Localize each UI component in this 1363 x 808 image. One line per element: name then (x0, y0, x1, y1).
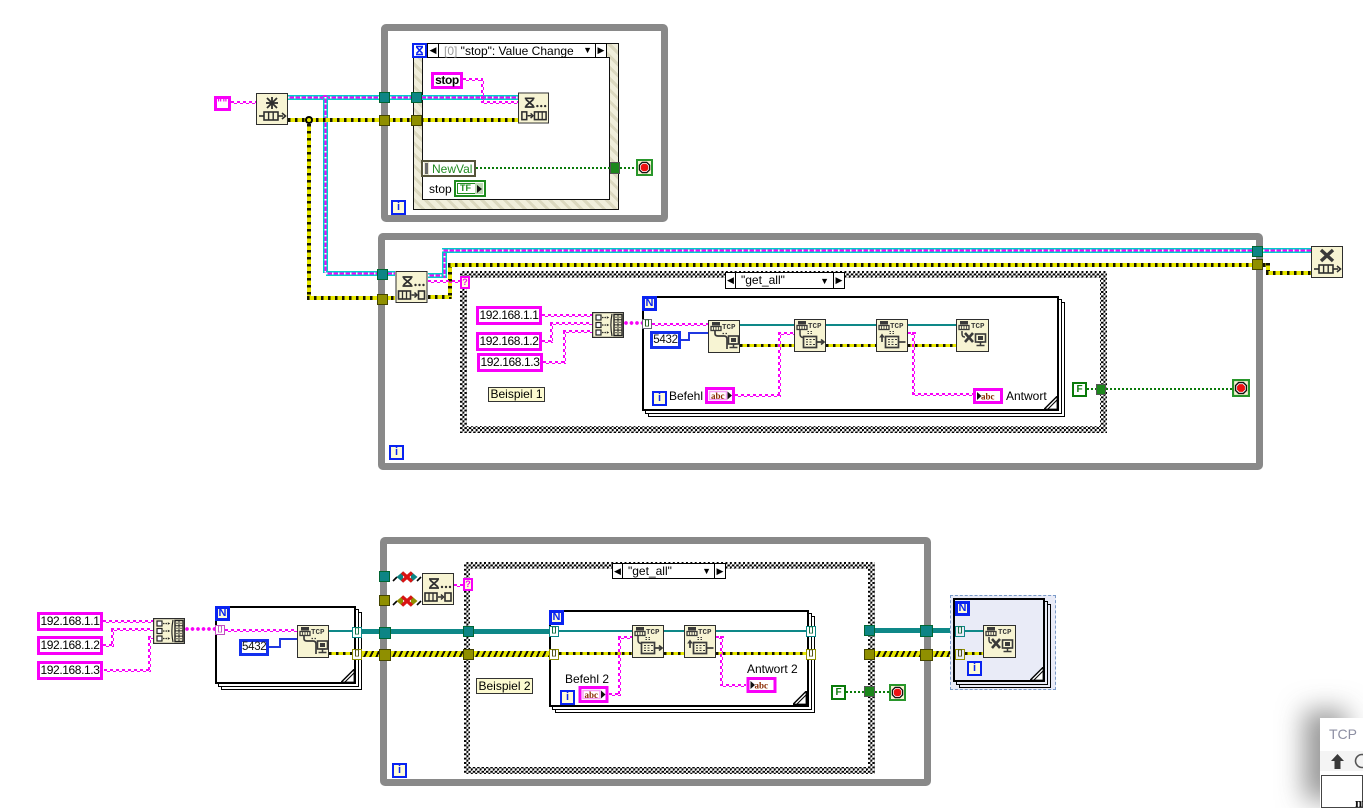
build array 2 (153, 618, 185, 644)
wire: error thin in for2 b (664, 652, 684, 655)
wire: conn id teal 2 (826, 324, 876, 326)
wire: F2 to tunnel (846, 691, 865, 693)
for loop 1 N terminal (642, 296, 657, 311)
while loop 1 (381, 24, 668, 222)
index tunnel forB left olive (955, 649, 965, 660)
event structure border (413, 43, 619, 210)
wire: error out forA (329, 652, 352, 655)
Befehl 2 abc control (578, 686, 609, 703)
case 1 header (725, 272, 845, 289)
for1 i terminal (652, 391, 667, 406)
tunnel teal case2 right (864, 625, 875, 636)
wire: queue refnum horizontal to enqueue (288, 95, 518, 100)
dequeue icon loop3 (422, 573, 454, 605)
dequeue icon loop2 (395, 271, 428, 303)
tunnel teal on event (411, 92, 422, 103)
tunnel olive loop3 topleft (379, 595, 390, 606)
Antwort 2 abc indicator (746, 677, 777, 693)
wire: address wavy to tcp open (652, 323, 708, 326)
loop3 i terminal (392, 763, 407, 778)
tunnel olive on event (411, 115, 422, 126)
wire: error to release queue icon (1263, 263, 1270, 267)
palette TCP title (1329, 726, 1357, 742)
Befehl abc control (705, 387, 735, 404)
Antwort label (1006, 389, 1047, 403)
wire: port blue (681, 339, 690, 341)
tcp close 2 (983, 625, 1016, 658)
case structure 2 border (464, 562, 875, 774)
wire: green dotted tunnel to stop button (620, 167, 637, 169)
tcp read 1 (876, 319, 908, 352)
tunnel teal loop3 topleft (379, 571, 390, 582)
stop label (429, 182, 452, 196)
tunnel teal loop2 right (1252, 246, 1263, 257)
tunnel green case2 (864, 686, 875, 697)
tunnel olive loop3 right (920, 649, 933, 661)
palette lower box (1321, 775, 1363, 808)
wire: Befehl to tcp write (735, 394, 781, 397)
junction dot queue (322, 95, 328, 101)
release queue icon (1311, 246, 1343, 278)
index tunnel for2 left olive (549, 649, 559, 660)
index tunnel for2 right teal (806, 626, 816, 637)
Beispiel 2 label (476, 678, 533, 694)
wire: teal thin in for2 c (716, 630, 807, 632)
enqueue icon (518, 92, 549, 124)
tunnel teal loop3 right (920, 625, 933, 637)
F constant 1 (1072, 382, 1087, 397)
wire: green dotted NewVal to tunnel (476, 167, 611, 169)
wire: Befehl2 to tcp write2 (609, 693, 621, 696)
wire: ip1 to build array (542, 314, 592, 317)
NewVal event data node (421, 160, 476, 177)
tunnel olive loop2 right (1252, 259, 1263, 270)
for loop B dogear (1030, 667, 1044, 681)
wire: tunnel to stop btn 3 (875, 691, 889, 693)
Antwort abc indicator (973, 388, 1003, 404)
tcp write 1 (794, 319, 826, 352)
wire: queue refnum vertical branch (323, 97, 328, 273)
event timeout terminal (412, 43, 427, 58)
while1 i terminal (391, 200, 406, 215)
forB i terminal (967, 661, 982, 676)
tcp write 2 (632, 625, 664, 658)
palette up arrow (1330, 753, 1345, 770)
for loop 2 stacked frames (555, 616, 815, 713)
for loop 2 (549, 610, 809, 707)
string constant "" (214, 96, 231, 111)
for loop 1 stacked frames (648, 302, 1065, 417)
junction dot error (305, 116, 313, 124)
wire: tunnel to stop btn 2 (1106, 388, 1232, 390)
for loop A (215, 606, 356, 684)
palette m glyph (1355, 795, 1363, 808)
case structure 2 inner (470, 569, 868, 767)
Beispiel 1 label (488, 387, 545, 402)
wire: F to tunnel (1087, 388, 1097, 390)
wire: error thin in for2 a (559, 652, 632, 655)
wire: error 1b (826, 344, 876, 347)
wire: queue out of dequeue to release (428, 273, 447, 278)
numeric constant 5432 (650, 331, 681, 349)
wire: tcp read data out to Antwort (908, 332, 916, 335)
for loop A dogear (341, 669, 355, 683)
tunnel green case1 (1096, 384, 1106, 395)
svg symbol defs (0, 0, 1, 1)
F constant 2 (831, 685, 846, 700)
wire: error out of obtain queue (288, 118, 518, 122)
event header box (427, 43, 607, 58)
for loop B selection highlight (950, 595, 1056, 690)
wire: error 1a (740, 344, 794, 347)
wire: ip3b to build array (104, 669, 151, 672)
wire: error 1c (908, 344, 956, 347)
wire: dequeue element to case selector (428, 280, 461, 283)
wire: teal inside case2 to for2 (474, 629, 550, 634)
tunnel olive case2 left (463, 649, 474, 660)
case structure 1 inner (467, 278, 1100, 426)
tcp open 1 (708, 320, 740, 353)
wire: ip1b to build array (103, 620, 153, 623)
stop TF terminal (454, 180, 486, 197)
for loop A stacked frames (221, 612, 362, 690)
tunnel teal on while1 (379, 92, 390, 103)
index tunnel for2 right olive (806, 649, 816, 660)
wire: teal band case2 to loop3 (875, 628, 921, 633)
string constant 192.168.1.3 (477, 353, 543, 372)
wire: teal out forA (329, 630, 352, 632)
wire: teal thin in for2 a (559, 630, 632, 632)
palette toolbar (1320, 751, 1363, 771)
tunnel teal loop2 left (377, 269, 388, 280)
wire: teal array to loop3 (362, 629, 382, 634)
wire: teal thin in forB (965, 630, 983, 632)
case 2 header (612, 563, 726, 579)
index tunnel forA right teal (352, 627, 362, 638)
wire: conn id teal 3 (908, 324, 956, 326)
wire: error band case2 to loop3 (875, 651, 921, 657)
wire: error inside case2 to for2 (474, 651, 550, 657)
wire: ip2b to build array (103, 644, 114, 647)
wire: string const to obtain queue (231, 101, 256, 104)
case selector ? tunnel (460, 276, 470, 289)
Befehl 2 label (565, 672, 609, 686)
wire: error thin in forB (965, 652, 983, 655)
wire: error thin in for2 c (716, 652, 807, 655)
for loop 2 N terminal (549, 610, 564, 625)
wire: error band to case2 (391, 651, 464, 657)
wire: error out of dequeue (428, 295, 452, 299)
while loop 2 (378, 233, 1263, 470)
case2 selector ? tunnel (463, 578, 473, 591)
indexing tunnel on for1 (642, 319, 652, 329)
numeric constant 5432 b (239, 639, 269, 656)
for loop B (953, 598, 1045, 682)
broken wire teal (392, 570, 422, 584)
Antwort 2 label (747, 662, 798, 676)
wire: ip2 to build array (542, 340, 553, 343)
broken wire olive (392, 594, 422, 608)
tunnel olive on while1 (379, 115, 390, 126)
palette partial circle (1354, 753, 1363, 769)
for loop B stacked frames (959, 604, 1051, 688)
wire: teal band to case2 (391, 629, 464, 634)
wire: tcp read2 out to Antwort2 (716, 636, 724, 639)
wire: conn id teal 1 (740, 324, 794, 326)
wire: array to for loop tunnel (624, 321, 644, 325)
wire: queue into loop2 (326, 271, 395, 276)
wire: array to forA tunnel (185, 627, 216, 631)
for loop 1 dogear (1044, 396, 1058, 410)
wire: error band loop3 to forB (933, 651, 956, 657)
stop local variable (431, 72, 463, 89)
wire: ip3 to build array (543, 361, 566, 364)
stop button terminal (636, 159, 653, 176)
tcp read 2 (684, 625, 716, 658)
tcp close 1 (956, 319, 989, 352)
obtain queue icon (256, 93, 288, 125)
for loop B N terminal (955, 601, 970, 616)
string constant 192.168.1.2 (476, 332, 542, 351)
event structure inner (422, 57, 610, 200)
wire: dequeue2 element to case2 selector (454, 584, 464, 587)
build array 1 (592, 312, 624, 338)
case structure 1 border (460, 271, 1107, 433)
index tunnel forB left teal (955, 626, 965, 637)
tunnel teal loop3 left (379, 627, 391, 639)
for loop 1 (642, 296, 1059, 411)
wire: address wavy to tcp open 2 (225, 629, 297, 632)
wire: teal thin in for2 b (664, 630, 684, 632)
tunnel olive case2 right (864, 649, 875, 660)
string constant 192.168.1.2 b (37, 636, 103, 655)
tunnel olive loop2 left (377, 294, 388, 305)
index tunnel for2 left teal (549, 626, 559, 637)
wire: error vertical branch (307, 124, 311, 298)
string constant 192.168.1.1 (476, 306, 542, 325)
string constant 192.168.1.3 b (37, 661, 103, 680)
for loop A N terminal (215, 606, 230, 621)
while2 i terminal (389, 445, 404, 460)
for loop 2 dogear (793, 691, 807, 705)
tunnel olive loop3 left (379, 649, 391, 661)
wire: queue to release queue icon (1263, 248, 1311, 253)
stop button 2 (1232, 379, 1250, 397)
tcp open 2 (297, 625, 329, 658)
indexing tunnel on forA (215, 625, 225, 635)
while loop 3 (380, 537, 931, 786)
index tunnel forA right olive (352, 649, 362, 660)
palette shadow + panel (1320, 718, 1363, 808)
tunnel green on event (610, 162, 620, 174)
string constant 192.168.1.1 b (37, 612, 103, 631)
for2 i terminal (560, 690, 575, 705)
wire: teal band loop3 to forB (933, 628, 956, 633)
wire: error into loop2 (307, 296, 395, 300)
Befehl label (669, 389, 703, 403)
wire: error array to loop3 (362, 651, 382, 657)
wire: stop to enqueue (463, 78, 483, 81)
stop button 3 (889, 684, 906, 701)
wire: port blue b (269, 646, 281, 648)
tunnel teal case2 left (463, 626, 474, 637)
